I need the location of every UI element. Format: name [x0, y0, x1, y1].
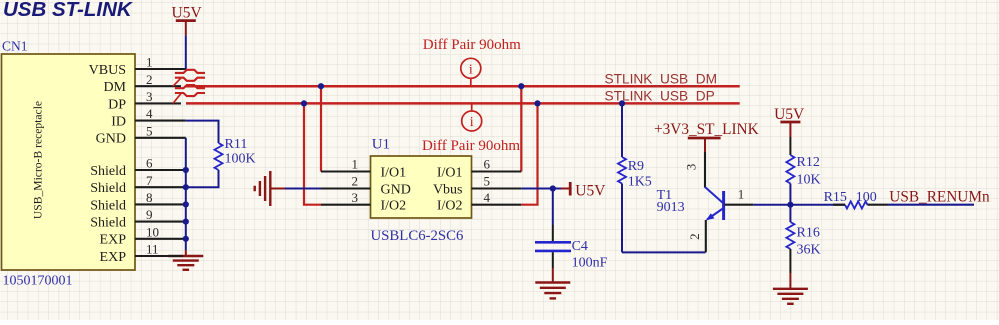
svg-text:Vbus: Vbus — [433, 182, 463, 197]
svg-text:Shield: Shield — [90, 164, 126, 179]
svg-text:I/O1: I/O1 — [437, 165, 463, 180]
svg-text:6: 6 — [146, 156, 153, 171]
svg-text:36K: 36K — [797, 243, 821, 258]
svg-text:2: 2 — [352, 174, 359, 189]
svg-text:I/O2: I/O2 — [437, 199, 463, 214]
svg-text:100nF: 100nF — [572, 256, 608, 271]
svg-text:EXP: EXP — [100, 250, 127, 265]
svg-text:I/O1: I/O1 — [381, 165, 407, 180]
svg-text:1K5: 1K5 — [628, 175, 652, 190]
svg-text:U5V: U5V — [172, 5, 203, 22]
svg-text:EXP: EXP — [100, 233, 127, 248]
svg-text:Diff Pair 90ohm: Diff Pair 90ohm — [422, 138, 520, 154]
svg-text:1050170001: 1050170001 — [3, 274, 73, 289]
svg-text:GND: GND — [381, 182, 411, 197]
svg-text:100: 100 — [856, 190, 877, 205]
svg-text:7: 7 — [146, 173, 153, 188]
svg-text:U1: U1 — [372, 137, 390, 153]
svg-text:9: 9 — [146, 207, 153, 222]
svg-text:1: 1 — [352, 157, 359, 172]
svg-text:USB ST-LINK: USB ST-LINK — [3, 0, 134, 21]
svg-text:Shield: Shield — [90, 198, 126, 213]
svg-text:STLINK_USB_DM: STLINK_USB_DM — [605, 71, 718, 86]
svg-text:11: 11 — [146, 242, 159, 257]
svg-text:5: 5 — [146, 123, 153, 138]
svg-text:U5V: U5V — [774, 106, 805, 123]
svg-text:DM: DM — [103, 80, 126, 95]
svg-text:4: 4 — [146, 106, 153, 121]
svg-text:+3V3_ST_LINK: +3V3_ST_LINK — [654, 121, 759, 138]
svg-text:Shield: Shield — [90, 181, 126, 196]
svg-text:Diff Pair 90ohm: Diff Pair 90ohm — [423, 37, 521, 53]
svg-text:3: 3 — [352, 190, 359, 205]
svg-text:CN1: CN1 — [2, 39, 28, 54]
svg-text:GND: GND — [96, 132, 126, 147]
svg-text:10K: 10K — [797, 173, 821, 188]
svg-text:3: 3 — [146, 89, 153, 104]
svg-text:6: 6 — [484, 157, 491, 172]
svg-text:4: 4 — [484, 190, 491, 205]
svg-text:DP: DP — [108, 97, 126, 112]
svg-text:Shield: Shield — [90, 216, 126, 231]
svg-text:USB_Micro-B receptacle: USB_Micro-B receptacle — [32, 101, 45, 219]
svg-text:R11: R11 — [225, 137, 248, 152]
svg-text:5: 5 — [484, 174, 491, 189]
svg-text:I/O2: I/O2 — [381, 199, 407, 214]
svg-text:U5V: U5V — [575, 182, 606, 199]
svg-text:USBLC6-2SC6: USBLC6-2SC6 — [371, 228, 464, 244]
svg-text:ID: ID — [111, 115, 126, 130]
svg-text:9013: 9013 — [657, 200, 685, 215]
svg-text:C4: C4 — [572, 239, 588, 254]
svg-text:2: 2 — [146, 72, 153, 87]
svg-text:R15: R15 — [824, 190, 847, 205]
svg-text:R16: R16 — [797, 226, 820, 241]
svg-text:2: 2 — [687, 233, 702, 240]
svg-text:8: 8 — [146, 190, 153, 205]
svg-text:1: 1 — [738, 186, 745, 201]
svg-text:VBUS: VBUS — [89, 63, 126, 78]
svg-text:i: i — [469, 62, 473, 77]
svg-text:1: 1 — [146, 55, 153, 70]
svg-text:100K: 100K — [225, 152, 256, 167]
svg-text:3: 3 — [684, 164, 699, 171]
svg-text:10: 10 — [146, 224, 159, 239]
svg-text:i: i — [470, 115, 474, 130]
svg-text:R9: R9 — [628, 159, 644, 174]
svg-text:R12: R12 — [797, 155, 820, 170]
svg-text:USB_RENUMn: USB_RENUMn — [889, 189, 990, 206]
